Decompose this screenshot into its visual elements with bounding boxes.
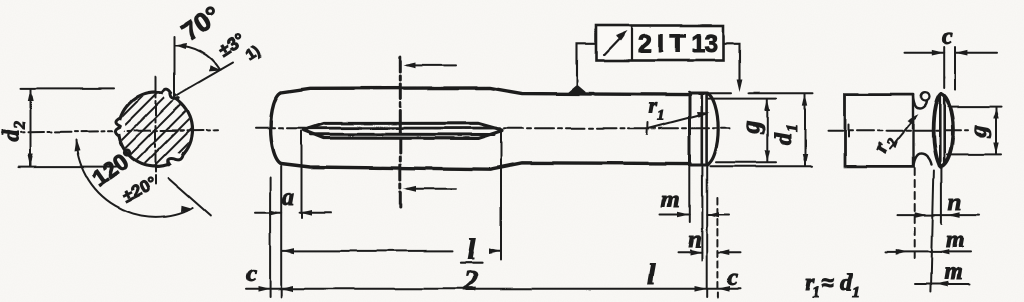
c left arrow [258,286,270,292]
d2 top extension line [21,87,114,89]
d2 bottom extension line [19,166,118,168]
section cut line (vertical chain) [399,57,402,207]
svg-text:n: n [948,190,961,216]
dimension n (main) [678,251,741,253]
groove notch bottom-right (300 deg) [168,153,184,167]
svg-text:m: m [944,259,963,285]
svg-text:2: 2 [12,121,29,130]
groove lens inner line 1 [309,127,496,130]
pin right end dome arc [707,93,718,164]
main view horizontal centerline [256,127,730,129]
svg-text:g: g [966,125,992,138]
cross-section circle with hatching [119,93,193,167]
groove lens bottom outline [304,130,502,138]
svg-text:l: l [467,233,476,266]
left section view: vertical centerline [155,77,157,184]
svg-text:1: 1 [812,284,820,301]
box left leader [577,44,596,86]
120deg arc with arrows [76,140,193,217]
machining symbol diagonal arrow [604,34,625,56]
circle outline [119,93,193,167]
detail g dimension line [995,107,997,154]
groove lens inner line 2 [311,133,494,136]
extension line groove start (a) [301,131,303,218]
d2 dimension line [30,89,32,166]
groove notch left (180 deg) [112,118,126,136]
svg-text:1: 1 [852,284,860,301]
detail dimension m1 [886,251,971,253]
svg-text:c: c [942,24,953,50]
detail c extension lines [944,47,955,90]
detail dimension m2 [915,283,970,285]
detail r2 loop circle [921,93,929,101]
70deg label [176,0,263,64]
pin outline: left dome [271,93,281,164]
d1 dimension line [804,94,806,166]
d1 label (main) [771,124,801,145]
svg-text:≈: ≈ [822,270,834,295]
detail cap lens left arc [933,94,941,166]
left section view: horizontal centerline [2,130,218,133]
svg-text:c: c [246,261,257,287]
svg-text:c: c [727,265,738,291]
r1 leader line with arrow [648,114,706,129]
pin outline: top edge [281,88,690,95]
pin right end vertical line [688,92,691,165]
svg-text:2 I T 13: 2 I T 13 [638,30,718,58]
tolerance frame box [596,26,724,61]
70deg arc with arrows [175,45,220,69]
70deg slanted line [176,63,233,96]
svg-text:n: n [688,227,701,253]
box right leader [724,44,740,83]
section arrow bottom [407,188,456,190]
detail shaft end face line [912,95,914,167]
120deg label [87,143,160,206]
extension line ring1 right (n) [701,167,703,260]
leader datum triangle [566,85,588,94]
groove lens top outline [304,123,502,130]
detail shaft outline [845,95,914,167]
d1 top extension line [695,92,813,94]
detail g bottom extension [947,153,1001,155]
d2 label [0,121,29,142]
svg-text:1: 1 [657,108,665,124]
pin outline: bottom edge [281,163,690,169]
detail cap inner lines [940,96,944,165]
detail c dimension line [905,52,997,54]
svg-text:r: r [648,93,657,118]
svg-text:d: d [771,132,797,145]
dimension a [255,212,331,214]
extension line dome tip left [269,178,271,297]
r2 label [868,132,902,157]
detail cap lens right arc [941,94,953,166]
svg-text:a: a [282,185,294,211]
svg-text:m: m [661,187,680,213]
r2 leader with arrow [890,119,915,150]
detail top neck curve [914,96,928,109]
dimension l/2 [282,250,501,252]
detail dimension n [897,214,979,216]
detail view centerline [828,130,968,132]
120deg radius extension line [168,178,211,216]
detail g top extension [948,106,1001,108]
g label (main) [738,121,765,135]
svg-text:g: g [738,121,765,135]
extension line ring2 right (m,l,c) [706,167,708,297]
detail extension line dashed (n/m left) [914,168,916,258]
g bottom extension line [716,161,776,163]
dimension l [246,288,740,290]
g top extension line [708,98,776,100]
extension line groove end (l/2) [500,132,502,260]
detail bottom neck curve [914,154,932,166]
g dimension line [766,99,768,162]
70deg reference vertical line [174,37,176,98]
pin right end top/bottom short edges [690,93,708,165]
section arrow top [407,64,456,66]
r1 leader tick [646,123,649,135]
extension line dome tip right dashed [716,198,718,297]
svg-text:2: 2 [463,266,478,297]
svg-text:m: m [946,227,965,253]
svg-text:1: 1 [784,124,801,132]
c right arrow [717,286,729,292]
svg-text:l: l [647,259,656,291]
dimension m (main) [660,214,729,216]
pin right end ring lines [702,93,707,164]
detail g label [966,125,992,138]
tolerance frame divider [631,26,633,61]
detail extension line lens-left [931,170,934,292]
detail centerline tick [848,125,850,137]
extension line cylinder end right (m) [688,167,690,222]
extension line cylinder start left [280,166,282,297]
d1 bottom extension line [710,165,812,167]
groove notch top-right (60 deg) [162,87,179,101]
detail extension line lens-inner [940,166,942,224]
svg-text:d: d [0,129,25,142]
